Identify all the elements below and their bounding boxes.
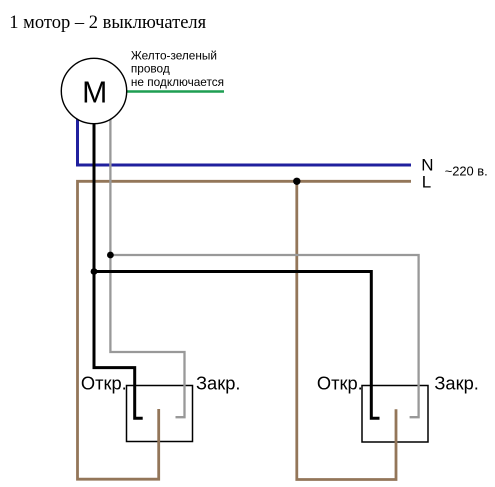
svg-text:~220 в.: ~220 в. (445, 164, 488, 179)
svg-text:Закр.: Закр. (434, 373, 478, 394)
svg-text:M: M (82, 76, 107, 109)
svg-text:Закр.: Закр. (196, 373, 240, 394)
junction: dot on gray wire (107, 252, 114, 259)
wire: green PE from motor (127, 90, 225, 92)
switch box SW1 (127, 386, 193, 442)
note: yellow-green wire not connected (131, 49, 224, 89)
wire: gray from motor to switch 1 (110, 118, 184, 417)
junction: dot on black wire (91, 268, 98, 275)
wire: brown drop to switch 2 (297, 181, 396, 479)
svg-text:1 мотор – 2 выключателя: 1 мотор – 2 выключателя (9, 13, 206, 33)
svg-text:не подключается: не подключается (131, 75, 224, 89)
wire: gray branch to switch 2 (110, 255, 418, 417)
junction: dot on L line (293, 178, 300, 185)
svg-text:L: L (422, 173, 431, 192)
wire: blue N from motor (78, 114, 412, 165)
svg-text:провод: провод (131, 62, 170, 76)
motor M (61, 58, 126, 123)
switch box SW2 (362, 386, 428, 443)
wire: black from motor to switch 1 (94, 122, 143, 418)
svg-text:Откр.: Откр. (317, 373, 363, 394)
svg-text:Желто-зеленый: Желто-зеленый (131, 49, 217, 63)
svg-text:Откр.: Откр. (81, 373, 127, 394)
wire: brown L line and drop to switch 1 (78, 181, 412, 479)
wire: black branch to switch 2 (94, 272, 380, 419)
